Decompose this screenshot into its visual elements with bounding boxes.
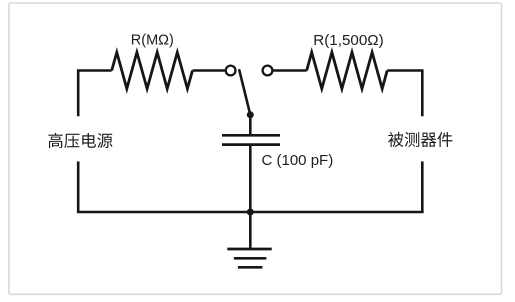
wire: switch contact 2 to R2 xyxy=(274,69,307,72)
wire: left vertical lower segment xyxy=(77,161,80,212)
svg-text:C (100 pF): C (100 pF) xyxy=(262,152,334,169)
wire: left top lead from corner to R1 xyxy=(78,71,112,117)
capacitor C plates xyxy=(222,135,280,144)
junction node: bottom rail xyxy=(247,209,254,216)
ground symbol xyxy=(227,249,271,267)
wire: right vertical lower segment xyxy=(421,161,424,212)
label 被测器件 (device under test) xyxy=(388,132,452,147)
switch arm xyxy=(239,70,250,115)
wire: bottom horizontal xyxy=(77,211,424,214)
svg-text:R(MΩ): R(MΩ) xyxy=(131,33,174,49)
switch contact circle left xyxy=(226,66,236,76)
wire: switch pole to capacitor xyxy=(249,115,252,134)
wire: capacitor to bottom rail xyxy=(249,146,252,212)
wire: R1 to switch contact xyxy=(193,69,225,72)
junction node: switch pole xyxy=(247,111,254,118)
wire: ground lead xyxy=(249,212,252,249)
label 高压电源 (HV power supply) xyxy=(48,133,112,148)
switch contact circle right xyxy=(263,66,273,76)
wire: right top lead from R2 to corner xyxy=(387,71,422,117)
resistor R(MΩ) xyxy=(112,52,193,88)
svg-text:R(1,500Ω): R(1,500Ω) xyxy=(313,32,383,49)
resistor R(1,500Ω) xyxy=(307,52,388,88)
